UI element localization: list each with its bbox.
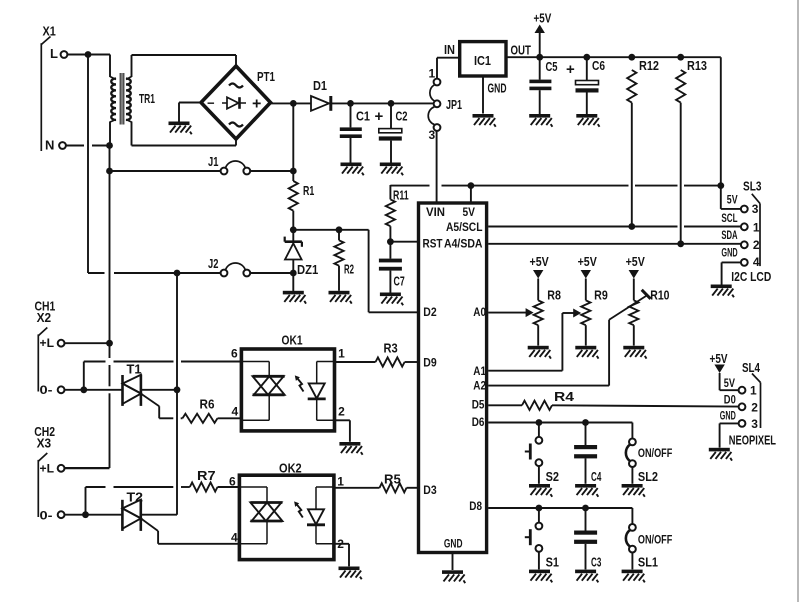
svg-text:SL4: SL4	[742, 361, 760, 375]
svg-text:D3: D3	[423, 483, 437, 497]
svg-text:SDA: SDA	[721, 230, 737, 242]
svg-text:5V: 5V	[727, 195, 738, 207]
svg-text:R1: R1	[303, 184, 314, 198]
svg-text:JP1: JP1	[446, 98, 462, 112]
svg-text:S1: S1	[546, 555, 559, 569]
svg-text:R11: R11	[393, 188, 409, 202]
svg-text:1: 1	[750, 384, 757, 398]
svg-text:A0: A0	[473, 305, 486, 319]
svg-text:−: −	[207, 96, 215, 111]
svg-text:A2: A2	[473, 379, 486, 393]
svg-text:1: 1	[337, 474, 344, 488]
svg-text:5V: 5V	[463, 205, 476, 219]
svg-text:A5/SCL: A5/SCL	[446, 220, 483, 234]
svg-text:X3: X3	[37, 437, 52, 451]
svg-text:4: 4	[232, 405, 239, 419]
svg-text:X2: X2	[37, 311, 52, 325]
svg-text:3: 3	[752, 202, 759, 216]
svg-text:A4/SDA: A4/SDA	[444, 237, 483, 251]
svg-text:0-: 0-	[40, 510, 53, 522]
svg-text:I2C LCD: I2C LCD	[731, 270, 771, 284]
svg-text:IC1: IC1	[474, 54, 491, 68]
svg-text:C3: C3	[591, 555, 601, 569]
svg-text:+5V: +5V	[578, 255, 598, 269]
svg-text:D2: D2	[423, 305, 437, 319]
svg-text:ON/OFF: ON/OFF	[638, 534, 672, 546]
svg-text:C4: C4	[591, 470, 601, 484]
svg-text:IN: IN	[444, 43, 455, 57]
svg-text:+: +	[566, 61, 575, 78]
svg-text:+: +	[375, 108, 384, 125]
svg-text:R2: R2	[344, 263, 354, 277]
svg-text:C6: C6	[592, 59, 605, 73]
svg-text:RST: RST	[423, 237, 444, 251]
svg-text:GND: GND	[444, 537, 463, 551]
svg-text:+5V: +5V	[534, 12, 552, 26]
svg-text:L: L	[50, 46, 58, 61]
svg-text:0-: 0-	[40, 385, 53, 397]
svg-text:VIN: VIN	[426, 205, 445, 219]
svg-text:R10: R10	[650, 289, 669, 303]
svg-text:+5V: +5V	[710, 352, 729, 366]
svg-text:D0: D0	[724, 394, 736, 406]
svg-text:GND: GND	[488, 82, 507, 96]
svg-text:SL1: SL1	[638, 555, 658, 569]
svg-text:+5V: +5V	[530, 255, 550, 269]
svg-text:OUT: OUT	[511, 44, 532, 58]
svg-text:TR1: TR1	[139, 92, 155, 106]
svg-text:2: 2	[753, 238, 760, 252]
svg-text:2: 2	[338, 405, 345, 419]
svg-text:N: N	[45, 138, 54, 153]
svg-text:J1: J1	[208, 155, 218, 169]
svg-text:C7: C7	[394, 275, 405, 289]
svg-text:R3: R3	[384, 342, 398, 356]
svg-text:2: 2	[751, 400, 758, 414]
svg-text:+: +	[252, 96, 261, 113]
svg-text:C1: C1	[356, 110, 370, 124]
svg-text:1: 1	[338, 346, 345, 360]
svg-text:1: 1	[753, 221, 760, 235]
svg-text:ON/OFF: ON/OFF	[638, 448, 672, 460]
svg-text:R4: R4	[554, 390, 574, 404]
svg-text:D6: D6	[472, 415, 485, 429]
svg-text:R7: R7	[197, 469, 216, 483]
svg-text:X1: X1	[43, 24, 56, 38]
svg-text:PT1: PT1	[257, 70, 275, 84]
svg-text:3: 3	[429, 128, 436, 142]
svg-text:6: 6	[229, 474, 236, 488]
svg-text:OK1: OK1	[282, 334, 303, 348]
svg-text:1: 1	[429, 66, 436, 80]
svg-text:SL3: SL3	[743, 180, 761, 194]
svg-text:D8: D8	[469, 499, 482, 513]
svg-text:T1: T1	[127, 363, 142, 377]
svg-text:C5: C5	[546, 60, 558, 74]
svg-text:+L: +L	[40, 463, 55, 475]
svg-text:6: 6	[231, 346, 238, 360]
svg-text:DZ1: DZ1	[297, 263, 318, 277]
svg-text:OK2: OK2	[279, 461, 302, 475]
svg-text:C2: C2	[396, 110, 408, 124]
svg-text:+L: +L	[40, 338, 55, 350]
svg-text:R12: R12	[639, 59, 659, 73]
svg-text:NEOPIXEL: NEOPIXEL	[729, 434, 776, 448]
svg-text:4: 4	[231, 531, 238, 545]
svg-text:R9: R9	[594, 289, 608, 303]
svg-text:SL2: SL2	[638, 470, 658, 484]
svg-text:3: 3	[751, 417, 758, 431]
svg-text:R13: R13	[687, 59, 707, 73]
svg-text:GND: GND	[721, 247, 737, 259]
svg-text:GND: GND	[720, 411, 736, 423]
svg-text:5V: 5V	[724, 378, 735, 390]
svg-text:D9: D9	[423, 356, 437, 370]
svg-text:J2: J2	[208, 257, 218, 271]
svg-text:R6: R6	[200, 398, 215, 412]
svg-text:SCL: SCL	[721, 213, 737, 225]
svg-text:R8: R8	[547, 289, 561, 303]
svg-text:4: 4	[753, 255, 760, 269]
svg-text:D1: D1	[313, 79, 327, 93]
svg-text:D5: D5	[472, 398, 485, 412]
svg-text:S2: S2	[546, 470, 559, 484]
svg-text:A1: A1	[473, 364, 486, 378]
svg-text:+5V: +5V	[626, 255, 646, 269]
